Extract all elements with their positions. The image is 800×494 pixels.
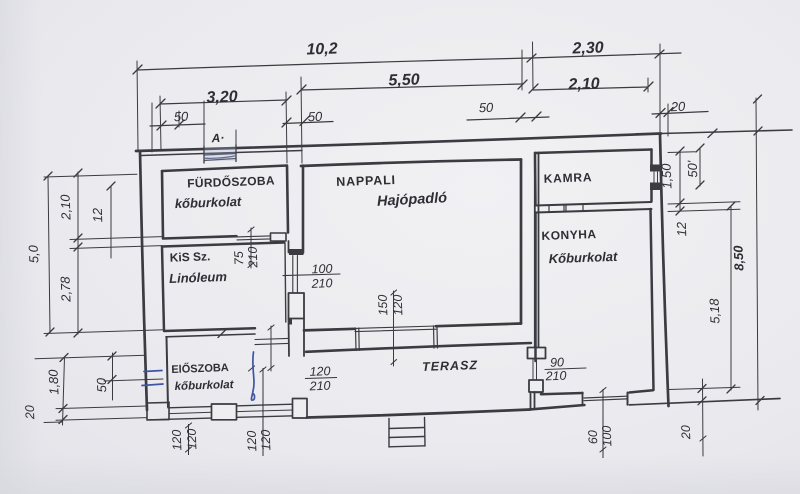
svg-text:120: 120 <box>309 364 330 379</box>
svg-text:210: 210 <box>544 369 566 384</box>
svg-text:Linóleum: Linóleum <box>169 269 228 286</box>
svg-text:5,18: 5,18 <box>707 297 723 324</box>
svg-text:20: 20 <box>23 405 38 420</box>
svg-text:50': 50' <box>685 160 701 178</box>
svg-text:5,0: 5,0 <box>26 244 42 263</box>
svg-text:TERASZ: TERASZ <box>422 358 479 374</box>
svg-text:120: 120 <box>259 429 274 450</box>
svg-text:50: 50 <box>94 377 110 393</box>
svg-text:A·: A· <box>210 131 224 145</box>
svg-text:3,20: 3,20 <box>206 88 238 106</box>
svg-text:120: 120 <box>170 429 185 450</box>
svg-text:10,2: 10,2 <box>306 40 338 58</box>
svg-text:50: 50 <box>479 100 495 116</box>
svg-text:100: 100 <box>311 262 332 277</box>
svg-text:1,50: 1,50 <box>659 162 675 189</box>
svg-text:2,10: 2,10 <box>567 75 600 93</box>
svg-text:8,50: 8,50 <box>731 244 747 271</box>
svg-text:KiS Sz.: KiS Sz. <box>169 249 210 264</box>
svg-text:50: 50 <box>174 109 190 125</box>
svg-text:kőburkolat: kőburkolat <box>174 379 234 393</box>
svg-text:120: 120 <box>185 428 200 449</box>
svg-text:2,78: 2,78 <box>58 275 74 303</box>
svg-text:210: 210 <box>310 276 332 291</box>
svg-text:2,10: 2,10 <box>58 193 74 221</box>
svg-text:210: 210 <box>246 246 261 268</box>
svg-text:12: 12 <box>674 221 690 237</box>
svg-text:KONYHA: KONYHA <box>541 227 596 243</box>
svg-text:20: 20 <box>679 425 694 440</box>
svg-text:kőburkolat: kőburkolat <box>175 194 243 211</box>
svg-text:ElŐSZOBA: ElŐSZOBA <box>171 361 229 376</box>
svg-text:90: 90 <box>550 355 564 369</box>
svg-text:KAMRA: KAMRA <box>543 170 592 186</box>
svg-text:75: 75 <box>232 251 246 265</box>
svg-text:100: 100 <box>600 425 615 446</box>
svg-text:20: 20 <box>670 99 687 115</box>
svg-text:5,50: 5,50 <box>388 71 420 89</box>
svg-text:NAPPALI: NAPPALI <box>336 173 396 189</box>
svg-text:120: 120 <box>245 430 260 451</box>
svg-text:120: 120 <box>391 294 406 315</box>
svg-text:Kőburkolat: Kőburkolat <box>548 249 618 266</box>
svg-text:2,30: 2,30 <box>571 39 604 57</box>
svg-text:50: 50 <box>308 109 324 125</box>
svg-text:12: 12 <box>90 207 106 223</box>
svg-text:60: 60 <box>586 430 600 444</box>
svg-text:1,80: 1,80 <box>46 368 62 395</box>
svg-text:210: 210 <box>308 379 330 394</box>
svg-text:FÜRDŐSZOBA: FÜRDŐSZOBA <box>187 172 275 190</box>
svg-text:150: 150 <box>376 294 391 315</box>
